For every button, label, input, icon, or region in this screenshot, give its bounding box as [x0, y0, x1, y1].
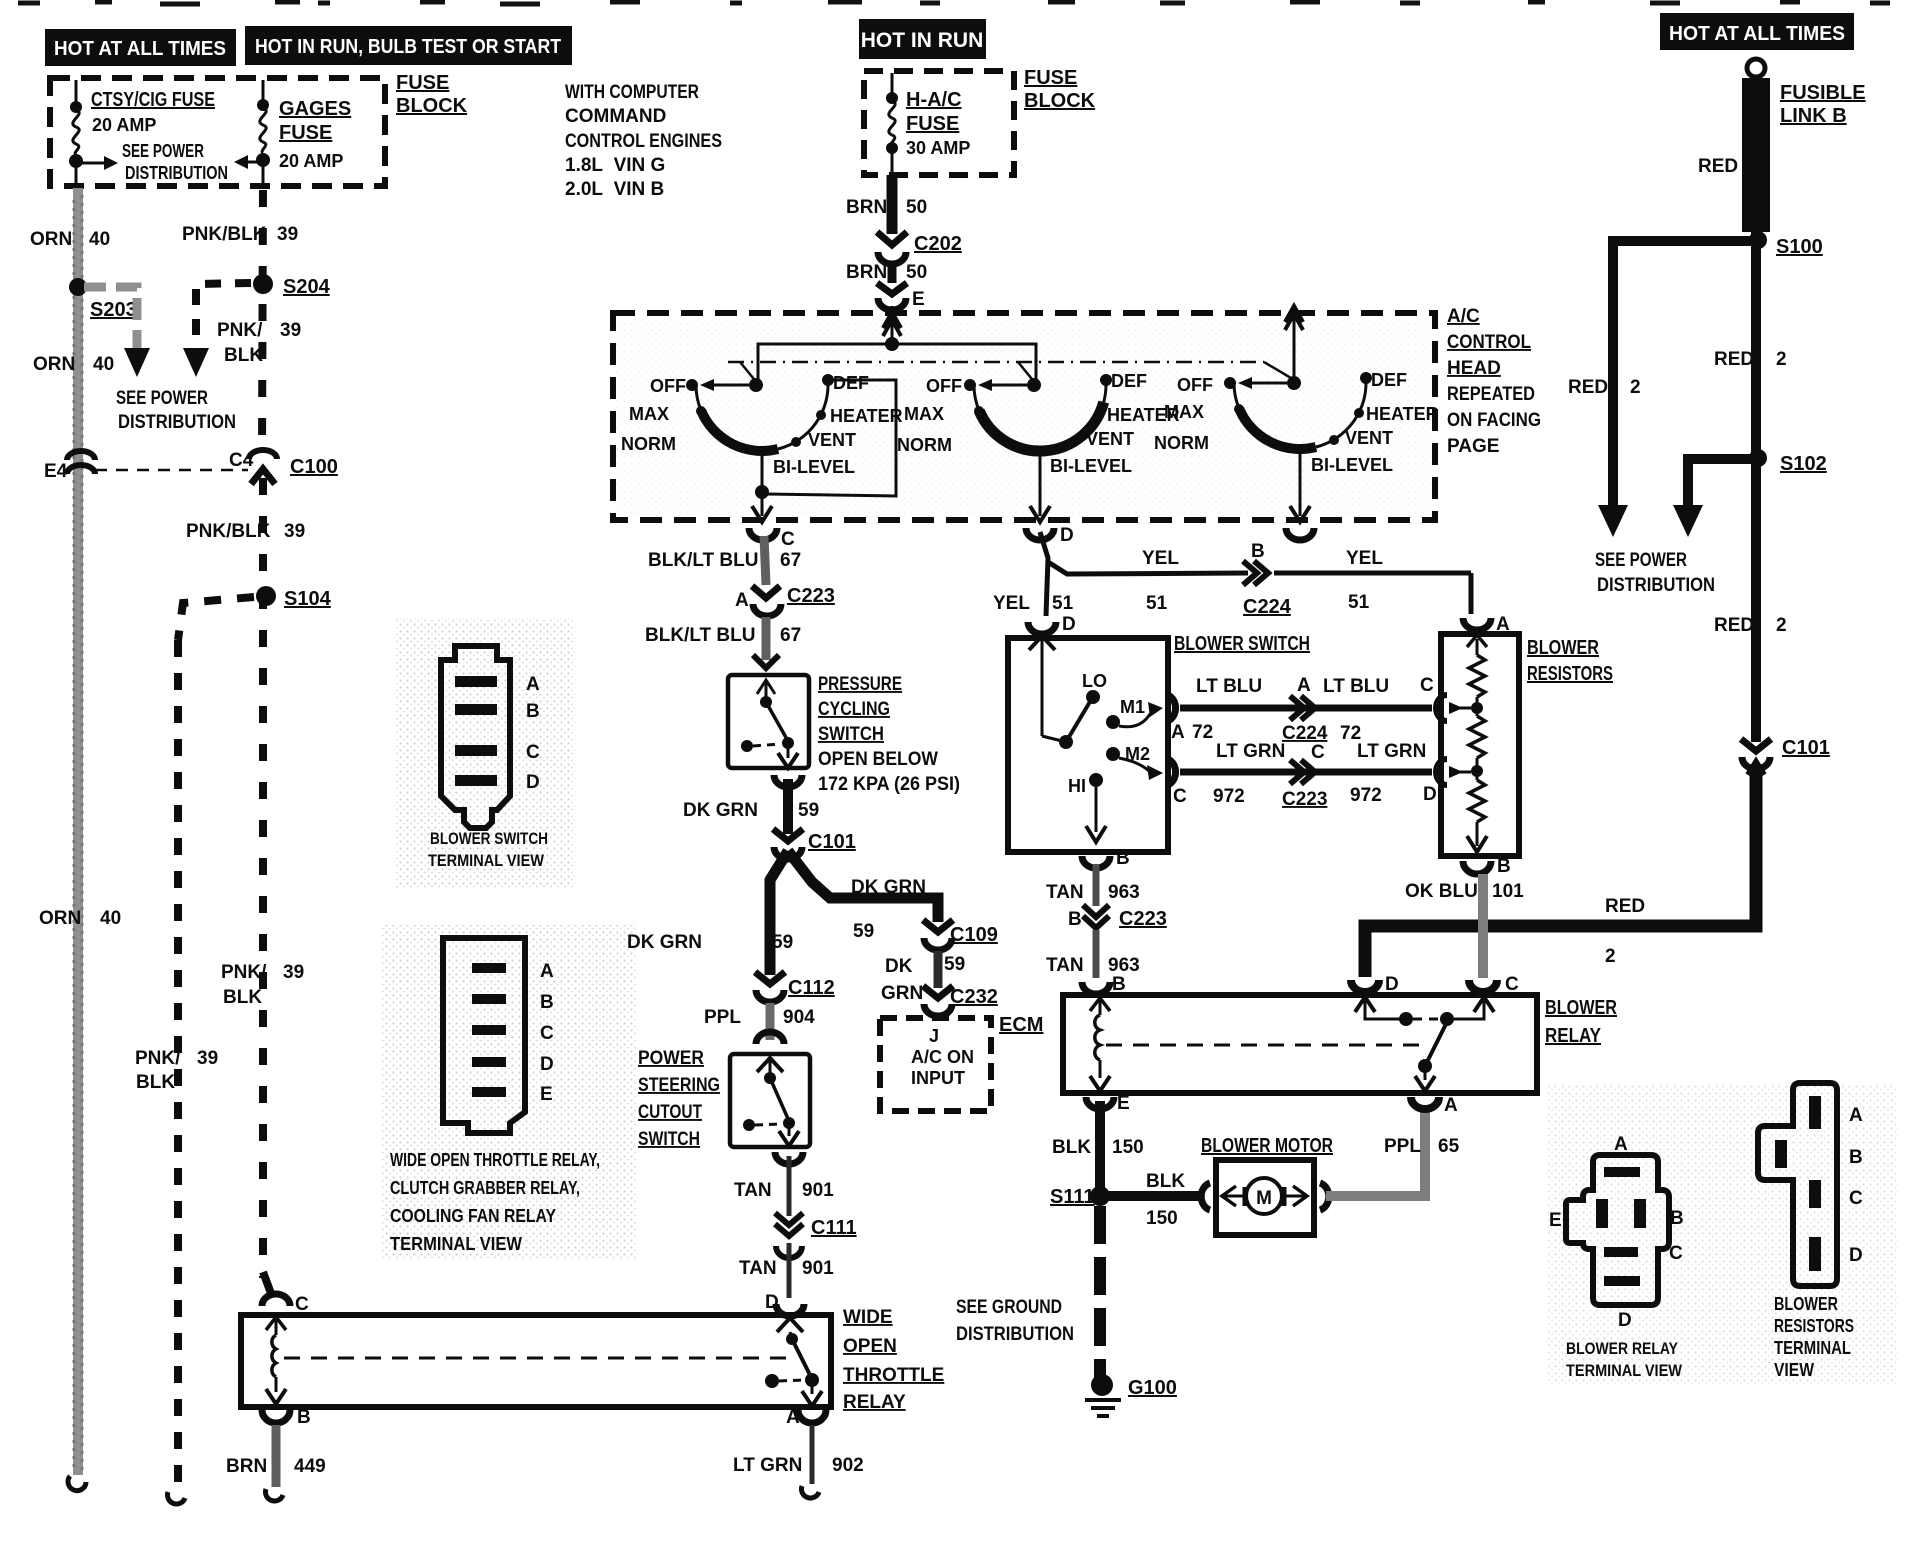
tap to C: [1449, 707, 1471, 710]
svg-text:BI-LEVEL: BI-LEVEL: [1050, 456, 1132, 476]
rotary switch 2 (center, A/C control head): [974, 380, 1106, 451]
wire BLK/LT BLU 67 (lower): [762, 617, 771, 660]
svg-text:TAN: TAN: [1046, 882, 1084, 903]
label RED 2 (left branch): [1568, 377, 1641, 398]
blower switch terminal view pins: [455, 676, 497, 786]
motor internals: [1222, 1186, 1236, 1206]
svg-text:THROTTLE: THROTTLE: [843, 1365, 944, 1386]
label PPL 65: [1384, 1136, 1460, 1157]
svg-text:BLK: BLK: [1052, 1137, 1091, 1158]
label PNK/BLK 39 (below C100): [186, 521, 305, 542]
svg-text:ORN: ORN: [33, 354, 75, 375]
svg-text:2.0L VIN B: 2.0L VIN B: [565, 179, 664, 200]
labels LT GRN C LT GRN D: [1216, 741, 1437, 805]
svg-text:M: M: [1256, 1188, 1272, 1209]
blower relay terminal view pin labels: [1549, 1134, 1684, 1331]
svg-text:TAN: TAN: [1046, 955, 1084, 976]
svg-text:DEF: DEF: [1371, 370, 1407, 390]
svg-text:TERMINAL: TERMINAL: [1774, 1338, 1851, 1358]
note SEE GROUND DISTRIBUTION: [956, 1297, 1074, 1345]
pressure cycling switch contacts: [757, 680, 775, 694]
branch from S102 to power distribution: [1688, 459, 1756, 505]
blower switch terminal view connector: [441, 646, 510, 828]
wire RED 2 to blower relay: [1365, 765, 1756, 977]
svg-text:C223: C223: [1282, 789, 1327, 810]
note SEE POWER DISTRIBUTION (right): [1595, 550, 1715, 596]
wiper arrow switch 3: [1252, 382, 1287, 385]
motor out terminal: [1320, 1183, 1329, 1210]
svg-text:S111: S111: [1050, 1186, 1095, 1208]
svg-text:A: A: [526, 674, 540, 695]
splice G100: [1091, 1374, 1113, 1396]
splice S102: [1749, 449, 1767, 467]
fuse CTSY/CIG 20A: [73, 80, 79, 188]
svg-text:2: 2: [1776, 349, 1787, 370]
svg-text:A: A: [786, 1407, 800, 1428]
fuse GAGES 20A: [260, 80, 266, 188]
terminal A of WOT relay: [798, 1410, 826, 1423]
svg-text:FUSE: FUSE: [396, 72, 449, 94]
connector C223 on LT GRN wire: [1290, 760, 1315, 784]
svg-text:67: 67: [780, 550, 801, 571]
svg-text:VENT: VENT: [808, 430, 856, 450]
wire S111 to G100: [1094, 1206, 1106, 1378]
svg-text:40: 40: [93, 354, 114, 375]
svg-text:NORM: NORM: [621, 434, 676, 454]
svg-text:LT GRN: LT GRN: [1216, 741, 1285, 762]
svg-text:A/C ON: A/C ON: [911, 1047, 974, 1067]
svg-text:S100: S100: [1776, 236, 1823, 258]
label DK GRN 59 (left branch): [627, 932, 793, 953]
resistor 3: [1476, 771, 1479, 780]
svg-text:C: C: [781, 529, 795, 550]
svg-text:RED: RED: [1698, 156, 1738, 177]
wide open throttle relay box: [241, 1315, 831, 1407]
svg-text:ORN: ORN: [39, 908, 81, 929]
label ORN 40 (lower): [39, 908, 121, 929]
svg-text:DISTRIBUTION: DISTRIBUTION: [125, 163, 228, 183]
svg-text:449: 449: [294, 1456, 326, 1477]
terminal D below control head: [1026, 528, 1054, 540]
terminal B of blower relay: [1082, 982, 1110, 994]
hook below BRN 449: [265, 1489, 283, 1501]
svg-text:RED: RED: [1568, 377, 1608, 398]
svg-text:B: B: [540, 992, 554, 1013]
svg-text:TERMINAL VIEW: TERMINAL VIEW: [428, 851, 545, 870]
labels switch 1: [621, 373, 903, 477]
WOT relay terminal view pins: [472, 963, 506, 1097]
svg-text:BLOWER: BLOWER: [1527, 637, 1599, 659]
svg-text:FUSE: FUSE: [906, 113, 959, 135]
label DK GRN 59 (ECM branch): [881, 954, 965, 1004]
svg-text:C109: C109: [950, 924, 998, 946]
svg-text:PPL: PPL: [704, 1007, 741, 1028]
svg-text:C232: C232: [950, 986, 998, 1008]
WOT relay terminal view pin labels: [540, 961, 554, 1105]
label FUSIBLE LINK B: [1780, 82, 1866, 127]
svg-text:A/C: A/C: [1447, 306, 1480, 327]
connector C101 (right): [1741, 739, 1771, 775]
terminal below power steering cutout switch: [775, 1152, 803, 1164]
svg-text:FUSIBLE: FUSIBLE: [1780, 82, 1866, 104]
arrow SEE POWER DISTRIBUTION (in fuse block): [82, 141, 228, 183]
splice S100: [1749, 231, 1767, 249]
terminal into power steering cutout switch: [756, 1032, 784, 1044]
terminal B of WOT relay: [262, 1410, 290, 1423]
WOT relay terminal view connector: [443, 938, 525, 1133]
label RED 2 (main wire): [1714, 349, 1787, 370]
svg-text:39: 39: [284, 521, 305, 542]
svg-text:E: E: [1117, 1093, 1130, 1114]
svg-text:40: 40: [89, 229, 110, 250]
terminal A of blower relay: [1411, 1097, 1439, 1109]
svg-text:904: 904: [783, 1007, 815, 1028]
blower resistors terminal view pins: [1775, 1096, 1821, 1271]
power steering cutout switch box: [730, 1054, 810, 1147]
label WIDE OPEN THROTTLE RELAY, CLUTCH GRABBER RELAY, COOLING FAN RELAY TERMINAL VIEW: [390, 1150, 600, 1254]
label RED 2 (horizontal run): [1605, 896, 1645, 967]
svg-text:PNK/: PNK/: [217, 320, 263, 341]
WOT relay coil: [266, 1317, 286, 1330]
hook at bottom of ORN wire: [68, 1476, 86, 1491]
label J A/C ON INPUT: [911, 1026, 974, 1088]
switch 1 output to C: [761, 451, 764, 492]
svg-text:D: D: [1060, 525, 1074, 546]
wire PNK/BLK (dashed vertical from gages fuse): [262, 190, 263, 1278]
svg-text:RED: RED: [1714, 615, 1754, 636]
wire PNK/BLK into C of WOT relay: [263, 1272, 272, 1296]
svg-text:HOT AT ALL TIMES: HOT AT ALL TIMES: [1669, 23, 1845, 45]
svg-text:S102: S102: [1780, 453, 1827, 475]
label BLK/LT BLU 67 (upper): [648, 550, 801, 571]
terminal B of blower switch: [1082, 856, 1110, 868]
svg-text:ON FACING: ON FACING: [1447, 410, 1541, 431]
svg-text:POWER: POWER: [638, 1048, 704, 1069]
svg-text:C112: C112: [788, 977, 835, 999]
svg-text:CYCLING: CYCLING: [818, 699, 890, 720]
relay switch contacts: [1355, 997, 1375, 1012]
labels switch 2: [897, 371, 1180, 476]
resistor 2: [1476, 708, 1479, 716]
label PRESSURE CYCLING SWITCH OPEN BELOW 172 KPA (26 PSI): [818, 674, 960, 795]
svg-text:BRN: BRN: [846, 262, 887, 283]
label BLK 150: [1052, 1137, 1144, 1158]
svg-text:E: E: [912, 289, 925, 310]
wire DK GRN Y-split: [770, 851, 788, 975]
svg-text:72: 72: [1192, 722, 1213, 743]
label H-A/C FUSE 30 AMP: [906, 89, 970, 158]
svg-text:BLOWER SWITCH: BLOWER SWITCH: [1174, 633, 1310, 655]
svg-text:A: A: [1171, 722, 1185, 743]
motor in terminal: [1201, 1183, 1210, 1210]
svg-text:VENT: VENT: [1345, 428, 1393, 448]
svg-text:C223: C223: [1119, 908, 1167, 930]
label BLOWER SWITCH TERMINAL VIEW: [428, 829, 548, 870]
svg-text:ORN: ORN: [30, 229, 72, 250]
terminal C below control head: [749, 528, 777, 540]
svg-text:150: 150: [1146, 1208, 1178, 1229]
svg-text:INPUT: INPUT: [911, 1068, 965, 1088]
svg-text:WIDE OPEN THROTTLE RELAY,: WIDE OPEN THROTTLE RELAY,: [390, 1150, 600, 1170]
junction node on bus: [885, 337, 899, 351]
svg-text:C101: C101: [1782, 737, 1830, 759]
connector C101 (center): [773, 829, 803, 859]
terminal B of blower resistors (bottom): [1463, 861, 1491, 874]
svg-text:A: A: [1849, 1105, 1863, 1126]
svg-text:OFF: OFF: [926, 376, 962, 396]
svg-text:BLOWER MOTOR: BLOWER MOTOR: [1201, 1135, 1333, 1157]
svg-text:LT BLU: LT BLU: [1323, 676, 1389, 697]
svg-text:DK GRN: DK GRN: [851, 877, 926, 898]
label BLOWER RESISTORS: [1527, 637, 1613, 685]
hook at bottom of left dashed wire: [167, 1492, 185, 1504]
svg-text:PNK/BLK: PNK/BLK: [186, 521, 271, 542]
svg-text:E: E: [540, 1084, 553, 1105]
label BRN 50 (lower): [846, 262, 927, 283]
fuse block (center) dashed box: [864, 71, 1014, 175]
svg-text:TAN: TAN: [734, 1180, 772, 1201]
svg-text:2: 2: [1630, 377, 1641, 398]
svg-text:30 AMP: 30 AMP: [906, 138, 970, 158]
svg-text:G100: G100: [1128, 1377, 1177, 1399]
svg-text:PNK/: PNK/: [221, 962, 267, 983]
svg-text:TERMINAL VIEW: TERMINAL VIEW: [1566, 1361, 1683, 1380]
branch from S100 to power distribution: [1613, 241, 1756, 505]
svg-text:C111: C111: [811, 1217, 857, 1239]
svg-text:LINK B: LINK B: [1780, 105, 1847, 127]
svg-text:OFF: OFF: [650, 376, 686, 396]
A/C control head dashed box: [613, 313, 1435, 520]
svg-text:BLOCK: BLOCK: [396, 95, 468, 117]
svg-text:DEF: DEF: [1111, 371, 1147, 391]
label OK BLU 101: [1405, 881, 1524, 902]
svg-text:VIEW: VIEW: [1774, 1360, 1814, 1380]
svg-text:BLK: BLK: [1146, 1171, 1185, 1192]
terminal below pressure switch: [774, 775, 802, 787]
svg-text:CONTROL: CONTROL: [1447, 332, 1531, 353]
svg-text:51: 51: [1146, 593, 1168, 614]
fusible link B bar: [1742, 78, 1770, 232]
svg-text:E: E: [1549, 1210, 1562, 1231]
ECM dashed box: [880, 1018, 991, 1111]
svg-text:D: D: [540, 1054, 554, 1075]
svg-text:STEERING: STEERING: [638, 1075, 720, 1096]
svg-text:B: B: [1497, 856, 1511, 877]
connector E4: [67, 451, 95, 474]
svg-text:YEL: YEL: [993, 593, 1030, 614]
svg-text:NORM: NORM: [1154, 433, 1209, 453]
wire DK GRN 59 (to ECM): [934, 951, 943, 988]
power steering cutout switch contacts: [769, 1060, 772, 1076]
svg-text:S204: S204: [283, 276, 331, 298]
svg-text:HEATER: HEATER: [1366, 404, 1439, 424]
svg-text:59: 59: [853, 921, 874, 942]
connector C109: [923, 920, 953, 950]
blower switch terminal view pin labels: [526, 674, 540, 793]
svg-text:C4: C4: [229, 450, 254, 471]
svg-text:BI-LEVEL: BI-LEVEL: [773, 457, 855, 477]
blower switch M2 to C wire: [1119, 758, 1155, 774]
labels LT BLU A LT BLU C: [1196, 675, 1434, 697]
svg-text:C: C: [1173, 786, 1187, 807]
svg-text:S104: S104: [284, 588, 332, 610]
wire BRN 50 (C202 to E): [888, 266, 897, 283]
wire TAN 901 (lower): [787, 1243, 792, 1298]
svg-text:HOT AT ALL TIMES: HOT AT ALL TIMES: [54, 38, 226, 60]
svg-text:BLK: BLK: [136, 1072, 175, 1093]
rotary switch 1 (left, A/C control head): [696, 380, 828, 451]
label PNK/ BLK 39 (left column lower): [135, 1048, 218, 1093]
svg-text:963: 963: [1108, 882, 1140, 903]
label CTSY/CIG FUSE: [91, 89, 215, 135]
WOT relay switch: [790, 1332, 791, 1336]
relay coil: [1090, 998, 1110, 1011]
svg-text:902: 902: [832, 1455, 864, 1476]
connector C224 (B, on YEL wire): [1243, 561, 1268, 585]
svg-text:COOLING FAN RELAY: COOLING FAN RELAY: [390, 1206, 556, 1226]
svg-text:ECM: ECM: [999, 1014, 1043, 1036]
svg-text:DEF: DEF: [833, 373, 869, 393]
svg-text:WITH COMPUTER: WITH COMPUTER: [565, 82, 699, 103]
svg-text:OK BLU: OK BLU: [1405, 881, 1478, 902]
fuse block (left) dashed box: [50, 78, 385, 186]
terminal D into blower switch: [1028, 622, 1056, 634]
svg-text:DISTRIBUTION: DISTRIBUTION: [118, 412, 236, 433]
svg-text:B: B: [1251, 541, 1265, 562]
wire BLK 150 (relay E down): [1095, 1101, 1105, 1190]
svg-text:RESISTORS: RESISTORS: [1774, 1316, 1854, 1336]
wire BRN 50 (fuse to C202): [887, 175, 898, 234]
label TAN 963 (upper): [1046, 882, 1140, 903]
label DK GRN 59: [683, 800, 819, 821]
svg-text:BLOWER SWITCH: BLOWER SWITCH: [430, 829, 548, 848]
svg-text:HOT IN RUN, BULB TEST OR STAR: HOT IN RUN, BULB TEST OR START: [255, 36, 561, 58]
label LT GRN 902: [733, 1455, 864, 1476]
wire TAN 963 (blower switch B down): [1093, 864, 1100, 906]
svg-text:E4: E4: [44, 461, 68, 482]
svg-text:59: 59: [798, 800, 819, 821]
svg-text:B: B: [1116, 848, 1130, 869]
terminal A of blower switch: [1168, 695, 1176, 721]
svg-text:FUSE: FUSE: [279, 122, 332, 144]
svg-text:GAGES: GAGES: [279, 98, 351, 120]
mechanical linkage dash line: [728, 361, 1264, 364]
blower switch M1 to A wire: [1119, 710, 1155, 727]
label PNK/ BLK 39 (right column lower): [221, 962, 304, 1008]
svg-text:MAX: MAX: [629, 404, 669, 424]
svg-text:CTSY/CIG FUSE: CTSY/CIG FUSE: [91, 89, 215, 111]
svg-text:2: 2: [1605, 946, 1616, 967]
svg-text:LO: LO: [1082, 671, 1107, 691]
svg-text:RED: RED: [1605, 896, 1645, 917]
resistor 1: [1469, 655, 1485, 697]
label ORN 40 (mid): [33, 354, 114, 375]
label C 972: [1173, 786, 1245, 807]
svg-text:D: D: [1423, 784, 1437, 805]
wire PPL 65 (motor to relay A): [1326, 1110, 1425, 1196]
note WITH COMPUTER COMMAND CONTROL ENGINES: [565, 82, 722, 200]
svg-text:C: C: [1849, 1188, 1863, 1209]
terminal C of blower relay: [1469, 980, 1497, 992]
svg-text:A: A: [735, 590, 749, 611]
power label HOT AT ALL TIMES (right): [1660, 13, 1854, 50]
svg-text:J: J: [929, 1026, 939, 1046]
connector C202: [877, 232, 907, 264]
wire TAN 963 (to relay B): [1093, 930, 1100, 978]
connector C112: [755, 972, 785, 1002]
terminal D of blower resistors (cup): [1436, 759, 1447, 785]
linkage slash 1: [740, 362, 758, 384]
wire BLK 150 (S111 to motor): [1108, 1191, 1203, 1201]
svg-text:D: D: [1385, 974, 1399, 995]
terminal C of blower switch: [1168, 759, 1176, 785]
svg-text:39: 39: [277, 224, 298, 245]
blower resistors box: [1441, 634, 1519, 856]
label DK GRN 59 (right branch): [851, 877, 926, 942]
resistors chain inside: [1467, 635, 1487, 647]
svg-text:YEL: YEL: [1142, 548, 1179, 569]
fuse H-A/C 30A: [889, 73, 895, 175]
label BLOWER RESISTORS TERMINAL VIEW: [1774, 1294, 1854, 1380]
scan noise patches: [395, 618, 575, 888]
switch 2 output to D: [1039, 451, 1042, 516]
svg-text:TAN: TAN: [739, 1258, 777, 1279]
label TAN 901 (upper): [734, 1180, 834, 1201]
blower motor box: [1216, 1160, 1314, 1235]
wire E entry into control head: [891, 306, 894, 344]
svg-text:C: C: [526, 742, 540, 763]
svg-text:BI-LEVEL: BI-LEVEL: [1311, 455, 1393, 475]
svg-text:PNK/BLK: PNK/BLK: [182, 224, 267, 245]
svg-text:BLK: BLK: [224, 345, 263, 366]
arrow into pressure cycling switch: [753, 655, 779, 668]
svg-text:PAGE: PAGE: [1447, 436, 1499, 457]
label A/C CONTROL HEAD REPEATED ON FACING PAGE: [1447, 306, 1541, 457]
svg-text:NORM: NORM: [897, 435, 952, 455]
power label HOT IN RUN, BULB TEST OR START: [245, 26, 572, 65]
svg-text:C100: C100: [290, 456, 338, 478]
svg-text:REPEATED: REPEATED: [1447, 384, 1535, 405]
svg-text:D: D: [1062, 614, 1076, 635]
wiper arrow switch 2: [992, 384, 1027, 387]
svg-text:C: C: [1505, 974, 1519, 995]
blower switch HI to B wire: [1095, 787, 1098, 832]
connector C4 C100: [249, 450, 277, 484]
wire LT BLU (switch A to resistors C): [1180, 705, 1432, 712]
label A 72: [1171, 722, 1213, 743]
svg-text:OPEN BELOW: OPEN BELOW: [818, 749, 938, 770]
svg-text:39: 39: [280, 320, 301, 341]
connector C223 (B, vertical): [1083, 905, 1109, 928]
svg-text:C223: C223: [787, 585, 835, 607]
svg-text:PNK/: PNK/: [135, 1048, 181, 1069]
switch 3 feed up (repeated on facing page): [1293, 310, 1296, 376]
label PNK/ BLK 39 (upper): [217, 320, 301, 366]
svg-text:B: B: [1068, 909, 1082, 930]
svg-text:2: 2: [1776, 615, 1787, 636]
svg-text:SEE POWER: SEE POWER: [122, 141, 204, 161]
svg-text:MAX: MAX: [1164, 402, 1204, 422]
svg-text:972: 972: [1350, 785, 1382, 806]
splice S104: [256, 586, 276, 606]
label BRN 449: [226, 1456, 326, 1477]
label RED 2 (below S102): [1714, 615, 1787, 636]
label BLOWER RELAY: [1545, 997, 1617, 1047]
svg-text:20 AMP: 20 AMP: [92, 115, 156, 135]
svg-text:S203: S203: [90, 299, 137, 321]
terminal E at A/C control head: [877, 283, 907, 310]
svg-text:CUTOUT: CUTOUT: [638, 1102, 702, 1123]
